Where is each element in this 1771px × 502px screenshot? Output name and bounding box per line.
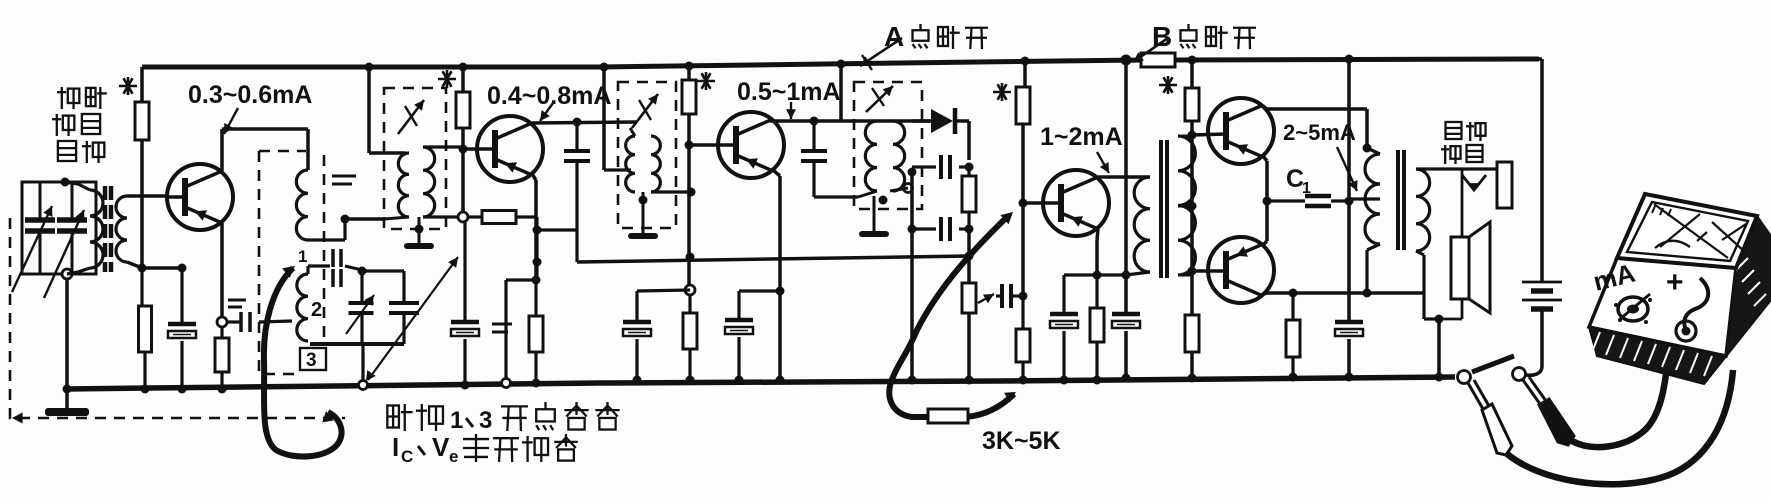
label B点断开 (1133, 21, 1256, 62)
junction x1293 y293 (1289, 289, 1298, 298)
junction rail x1023 (1019, 376, 1028, 385)
wire secondary bottom (1424, 255, 1439, 319)
junction Q3 base (685, 141, 694, 150)
junction collector cap3 (810, 117, 819, 126)
wire Q4 emitter (1097, 229, 1098, 275)
junction rail x1192 (1188, 374, 1197, 383)
junction top rail x463 (459, 63, 468, 72)
label 0.5~1mA (737, 78, 841, 106)
capacitor C e4b electrolytic (1112, 314, 1140, 378)
transformer T1 secondary (116, 196, 167, 268)
meter label plus (1666, 266, 1684, 299)
ground T2 (404, 217, 434, 249)
oscillator coil primary (296, 170, 345, 240)
wire emitter bias4 (1064, 273, 1126, 276)
wire T3 feed (604, 67, 631, 170)
transformer T2 left winding (384, 153, 409, 219)
meter knob (1614, 294, 1652, 324)
svg-text:I: I (392, 432, 399, 462)
capacitor C out electrolytic (1335, 322, 1363, 377)
resistor R base2 horizontal (468, 211, 537, 224)
ground T3 (628, 192, 658, 239)
wire cap node right (362, 269, 404, 272)
wire x1349 vertical (1347, 59, 1351, 322)
trimmer arrow T3 (632, 94, 658, 128)
transformer T2 right winding (423, 147, 463, 217)
junction x536 y280 (532, 276, 541, 285)
wire emitters common (1263, 156, 1267, 245)
multimeter right band (1704, 216, 1771, 384)
wire B line down (1124, 60, 1128, 314)
wire gang to ground (65, 279, 69, 389)
junction top rail x841 (837, 60, 846, 69)
dashed guide left (10, 218, 345, 424)
node rail x363 (359, 381, 368, 390)
junction x1097 y275 (1093, 271, 1102, 280)
svg-text:C: C (401, 447, 413, 466)
label 1~2mA (1040, 123, 1123, 151)
resistor R2 (456, 67, 470, 213)
junction x912 y172 (908, 168, 917, 177)
resistor R5 lower (1185, 315, 1199, 378)
junction rail x145 (141, 385, 150, 394)
wire emitter bias (142, 266, 182, 270)
headphone jack contact (1462, 175, 1486, 191)
svg-text:+: + (1666, 266, 1684, 299)
multimeter bottom band (1589, 327, 1726, 384)
junction rail x1349 (1345, 373, 1354, 382)
svg-text:3: 3 (306, 350, 317, 371)
junction gang top (61, 178, 70, 187)
capacitor C collector3 (801, 121, 858, 197)
label C1 (1286, 165, 1311, 197)
transformer T4 right winding (893, 121, 912, 191)
test lead short 1-3 (264, 266, 342, 457)
asterisk R5 (1159, 76, 1177, 94)
arrow to Q2 collector (540, 103, 553, 121)
wire battery to probe (1526, 309, 1542, 375)
node osc cap (358, 267, 367, 276)
probe P2 body (1523, 377, 1574, 445)
resistor R det (962, 167, 976, 229)
test cable from P2 (1572, 348, 1669, 447)
node Q1 emitter (217, 317, 227, 327)
wire T4 feed from rail (839, 64, 843, 121)
svg-text:V: V (432, 432, 450, 462)
junction top rail x1025 (1021, 57, 1030, 66)
wire speaker bottom (1439, 299, 1462, 319)
junction rail x222 (218, 385, 227, 394)
wire secondary top to jack (1428, 167, 1497, 170)
junction x969 y167 (965, 163, 974, 172)
dial graphics (1652, 204, 1746, 258)
svg-text:2: 2 (311, 299, 322, 321)
variable capacitor CT2 (44, 182, 87, 298)
junction rail x739 (735, 376, 744, 385)
test lead 3K-5K (889, 212, 1016, 417)
wire R5 mid (1190, 136, 1194, 315)
wire to rail (1437, 319, 1441, 377)
junction x1439 y319 (1435, 315, 1444, 324)
transformer T5 secondary (1178, 136, 1195, 275)
junction top rail x689 (685, 62, 694, 71)
resistor R e1 (215, 327, 229, 389)
svg-text:2~5mA: 2~5mA (1283, 120, 1356, 145)
transformer T5 core (1161, 140, 1167, 278)
junction x1367 y148 (1363, 144, 1372, 153)
transistor Q2 (463, 116, 543, 182)
dashed box T4 (854, 82, 922, 209)
wire Q6 collector (1263, 293, 1424, 294)
capacitor C det1 (912, 155, 969, 179)
label 短路1、3两点检查 (387, 402, 619, 434)
transformer T6 core (1398, 150, 1404, 250)
junction x142 y268 (138, 264, 147, 273)
variable capacitor CT1 (12, 182, 55, 292)
transistor Q3 (689, 112, 784, 178)
arrow to Q1 collector (224, 108, 238, 134)
junction rail x1293 (1289, 373, 1298, 382)
label 0.3~0.6mA (188, 81, 312, 109)
probe node P1 (1458, 371, 1471, 384)
label tap 2 (311, 299, 322, 321)
capacitor C e4a electrolytic (1050, 275, 1078, 380)
transformer T1 primary (65, 182, 103, 274)
junction x537 y230 (533, 226, 542, 235)
wire battery feed (1539, 59, 1542, 282)
junction osc y219 (341, 215, 350, 224)
asterisk R1 (119, 77, 137, 95)
dashed box T3 (618, 82, 676, 228)
junction x182 y268 (178, 264, 187, 273)
junction T5 sec bottom (1188, 267, 1197, 276)
label 0.4~0.8mA (487, 82, 611, 110)
long arrow variable osc (366, 257, 458, 381)
junction top rail x369 (365, 63, 374, 72)
resistor R e4 (1090, 275, 1104, 380)
wire Q3 emitter (773, 170, 780, 380)
trimmer arrow T4 (866, 86, 893, 112)
wire T4 tap down (890, 172, 912, 380)
battery B1 (1522, 282, 1562, 309)
meter label mA (1590, 258, 1638, 297)
node B (1121, 55, 1132, 66)
resistor R1 bias (135, 67, 149, 268)
label 耳机插座 (1441, 122, 1486, 164)
wire Q5 collector (1263, 106, 1367, 148)
wire trimmers common (310, 344, 404, 385)
multimeter body face (1589, 258, 1736, 356)
junction top rail x1349 (1345, 55, 1354, 64)
trimmer capacitor osc B (389, 271, 419, 344)
tuning capacitor gang box (22, 182, 96, 274)
transformer T4 left winding (858, 121, 877, 197)
trimmer capacitor osc A (346, 271, 374, 344)
wire T6 center tap (1349, 197, 1380, 200)
resistor R5 upper (1185, 60, 1199, 136)
transformer T6 secondary (1416, 169, 1430, 255)
wire emitter to tap2 (227, 312, 292, 332)
junction x691 y257 (686, 253, 695, 262)
capacitor C e1 electrolytic (168, 268, 196, 389)
capacitor C coupling (996, 284, 1023, 308)
svg-text:0.5~1mA: 0.5~1mA (737, 78, 841, 106)
wire Q2 emitter (532, 174, 536, 280)
junction x537 y262 (533, 258, 542, 267)
label A点断开 (860, 21, 988, 70)
wire Q1 collector (222, 129, 308, 171)
trimmer arrow T2 (398, 100, 424, 134)
meter terminal (1676, 321, 1696, 341)
dashed box T2 (384, 88, 446, 229)
transistor Q1 (167, 164, 233, 230)
multimeter dial window (1617, 194, 1757, 268)
junction T3 tap (687, 188, 696, 197)
wire top supply rail (142, 59, 1539, 67)
capacitor C collector2 (564, 122, 590, 262)
junction x969 y229 (965, 225, 974, 234)
box label tap 3 (300, 348, 326, 371)
speaker (1451, 222, 1490, 313)
potentiometer R vol (962, 229, 994, 380)
svg-text:1: 1 (298, 247, 307, 266)
transformer T5 primary (1126, 177, 1150, 275)
junction rail x690 (686, 376, 695, 385)
node gang bottom (62, 269, 72, 279)
wire bottom ground rail (65, 377, 1455, 389)
junction rail x1064 (1060, 376, 1069, 385)
junction rail x1126 (1122, 374, 1131, 383)
junction x1126 y275 (1122, 271, 1131, 280)
junction top rail x604 (600, 63, 609, 72)
junction rail x182 (178, 385, 187, 394)
svg-text:3: 3 (479, 407, 492, 434)
probe P1 body (1468, 380, 1512, 455)
label 3K~5K (982, 427, 1061, 455)
tiny value label osc (332, 176, 356, 184)
junction T4 bottom (879, 196, 888, 205)
wire Q2 collector (532, 122, 637, 123)
transformer T3 left winding (626, 128, 635, 192)
node T4 tap (904, 184, 913, 193)
junction x1023 y296 (1019, 292, 1028, 301)
node rail x506 (502, 379, 511, 388)
junction rail x465 (461, 381, 470, 390)
svg-text:0.4~0.8mA: 0.4~0.8mA (487, 82, 611, 110)
junction rail x912 (908, 376, 917, 385)
transformer T1 core (105, 186, 111, 272)
wire detector load (967, 121, 971, 160)
asterisk R4 (993, 83, 1011, 101)
ground main (45, 389, 89, 416)
label Ic Ve有无变化 (392, 432, 578, 466)
capacitor C1 (1267, 196, 1349, 206)
wire emitter left cap (506, 280, 536, 383)
wire Q1 emitter (220, 223, 224, 317)
wire AGC line (577, 256, 969, 262)
label 偏流调整电阻 (52, 87, 107, 163)
transformer T6 primary (1365, 148, 1380, 293)
junction T2 bottom (415, 225, 424, 234)
asterisk R3 (697, 72, 715, 90)
junction Q4 base (1019, 199, 1028, 208)
junction top rail x1192 (1188, 56, 1197, 65)
probe P1 stub (1472, 356, 1514, 372)
dashed box oscillator coil (259, 151, 324, 374)
node x463 y217 (458, 212, 468, 222)
junction rail x1097 (1093, 376, 1102, 385)
transistor Q6 (1192, 237, 1274, 303)
junction x912 y229 (908, 225, 917, 234)
arrow to output junction (1337, 147, 1358, 191)
wire tap1 caps (308, 249, 362, 287)
resistor R3 (682, 66, 696, 287)
wire base res down (537, 217, 577, 280)
junction rail x780 (776, 376, 785, 385)
junction T5 center tap (1178, 202, 1197, 211)
junction x780 y291 (776, 287, 785, 296)
junction Q2 base (459, 145, 468, 154)
capacitor C base2 (451, 217, 479, 383)
junction emitters (1263, 197, 1272, 206)
wire Q4 collector (1098, 175, 1150, 179)
asterisk R2 (438, 70, 456, 88)
wire osc to T2 (345, 217, 384, 221)
junction T5 sec top (1188, 131, 1197, 140)
junction x1367 y293 (1363, 289, 1372, 298)
meter terminal squiggle (1684, 278, 1708, 330)
resistor R probe inline (928, 409, 968, 423)
ground T4 (859, 196, 889, 237)
junction rail x536 (532, 379, 541, 388)
resistor R base3 lower (683, 295, 697, 380)
svg-text:0.3~0.6mA: 0.3~0.6mA (188, 81, 312, 109)
tiny label at emitter node (228, 300, 246, 307)
tiny value label c2 (492, 324, 512, 332)
svg-text:3K~5K: 3K~5K (982, 427, 1061, 455)
resistor R e2b (529, 280, 543, 383)
svg-text:e: e (449, 447, 458, 466)
transistor Q5 (1192, 98, 1274, 164)
resistor RB inline at B point (1141, 53, 1175, 67)
capacitor C det2 (912, 217, 969, 241)
arrow to Q4 collector (1097, 152, 1109, 173)
oscillator coil secondary taps (297, 266, 308, 341)
transformer T3 right winding (651, 136, 691, 192)
capacitor C emitter3 (725, 291, 780, 380)
capacitor C base3 (623, 290, 690, 380)
test cable from P1 (1506, 370, 1733, 484)
junction rail x637 (633, 376, 642, 385)
wire top feed T2 (369, 67, 405, 153)
junction rail x969 (965, 376, 974, 385)
resistor R4 (1016, 61, 1030, 296)
svg-text:1~2mA: 1~2mA (1040, 123, 1123, 151)
svg-text:1: 1 (450, 407, 463, 434)
resistor R base4 lower (1016, 296, 1030, 380)
wire Q3 collector (770, 120, 931, 121)
junction rail x67 (63, 385, 72, 394)
probe node P2 (1513, 368, 1526, 381)
junction Q2 collector cap (573, 118, 582, 127)
resistor R e2 (139, 268, 152, 389)
diode D detector (912, 108, 969, 134)
label tap 1 (298, 247, 307, 266)
junction T3 bottom (639, 196, 648, 205)
label 2~5mA (1283, 120, 1356, 145)
arrow to Q3 collector (786, 102, 796, 119)
junction x969 y256 (965, 252, 974, 261)
junction x1349 y201 (1345, 197, 1354, 206)
transistor Q4 (1023, 170, 1109, 236)
wire jack to speaker (1461, 169, 1464, 237)
junction rail x1439 (1435, 373, 1444, 382)
node x690 y290 (685, 285, 695, 295)
headphone jack body (1497, 162, 1512, 208)
resistor R out (1286, 293, 1300, 377)
